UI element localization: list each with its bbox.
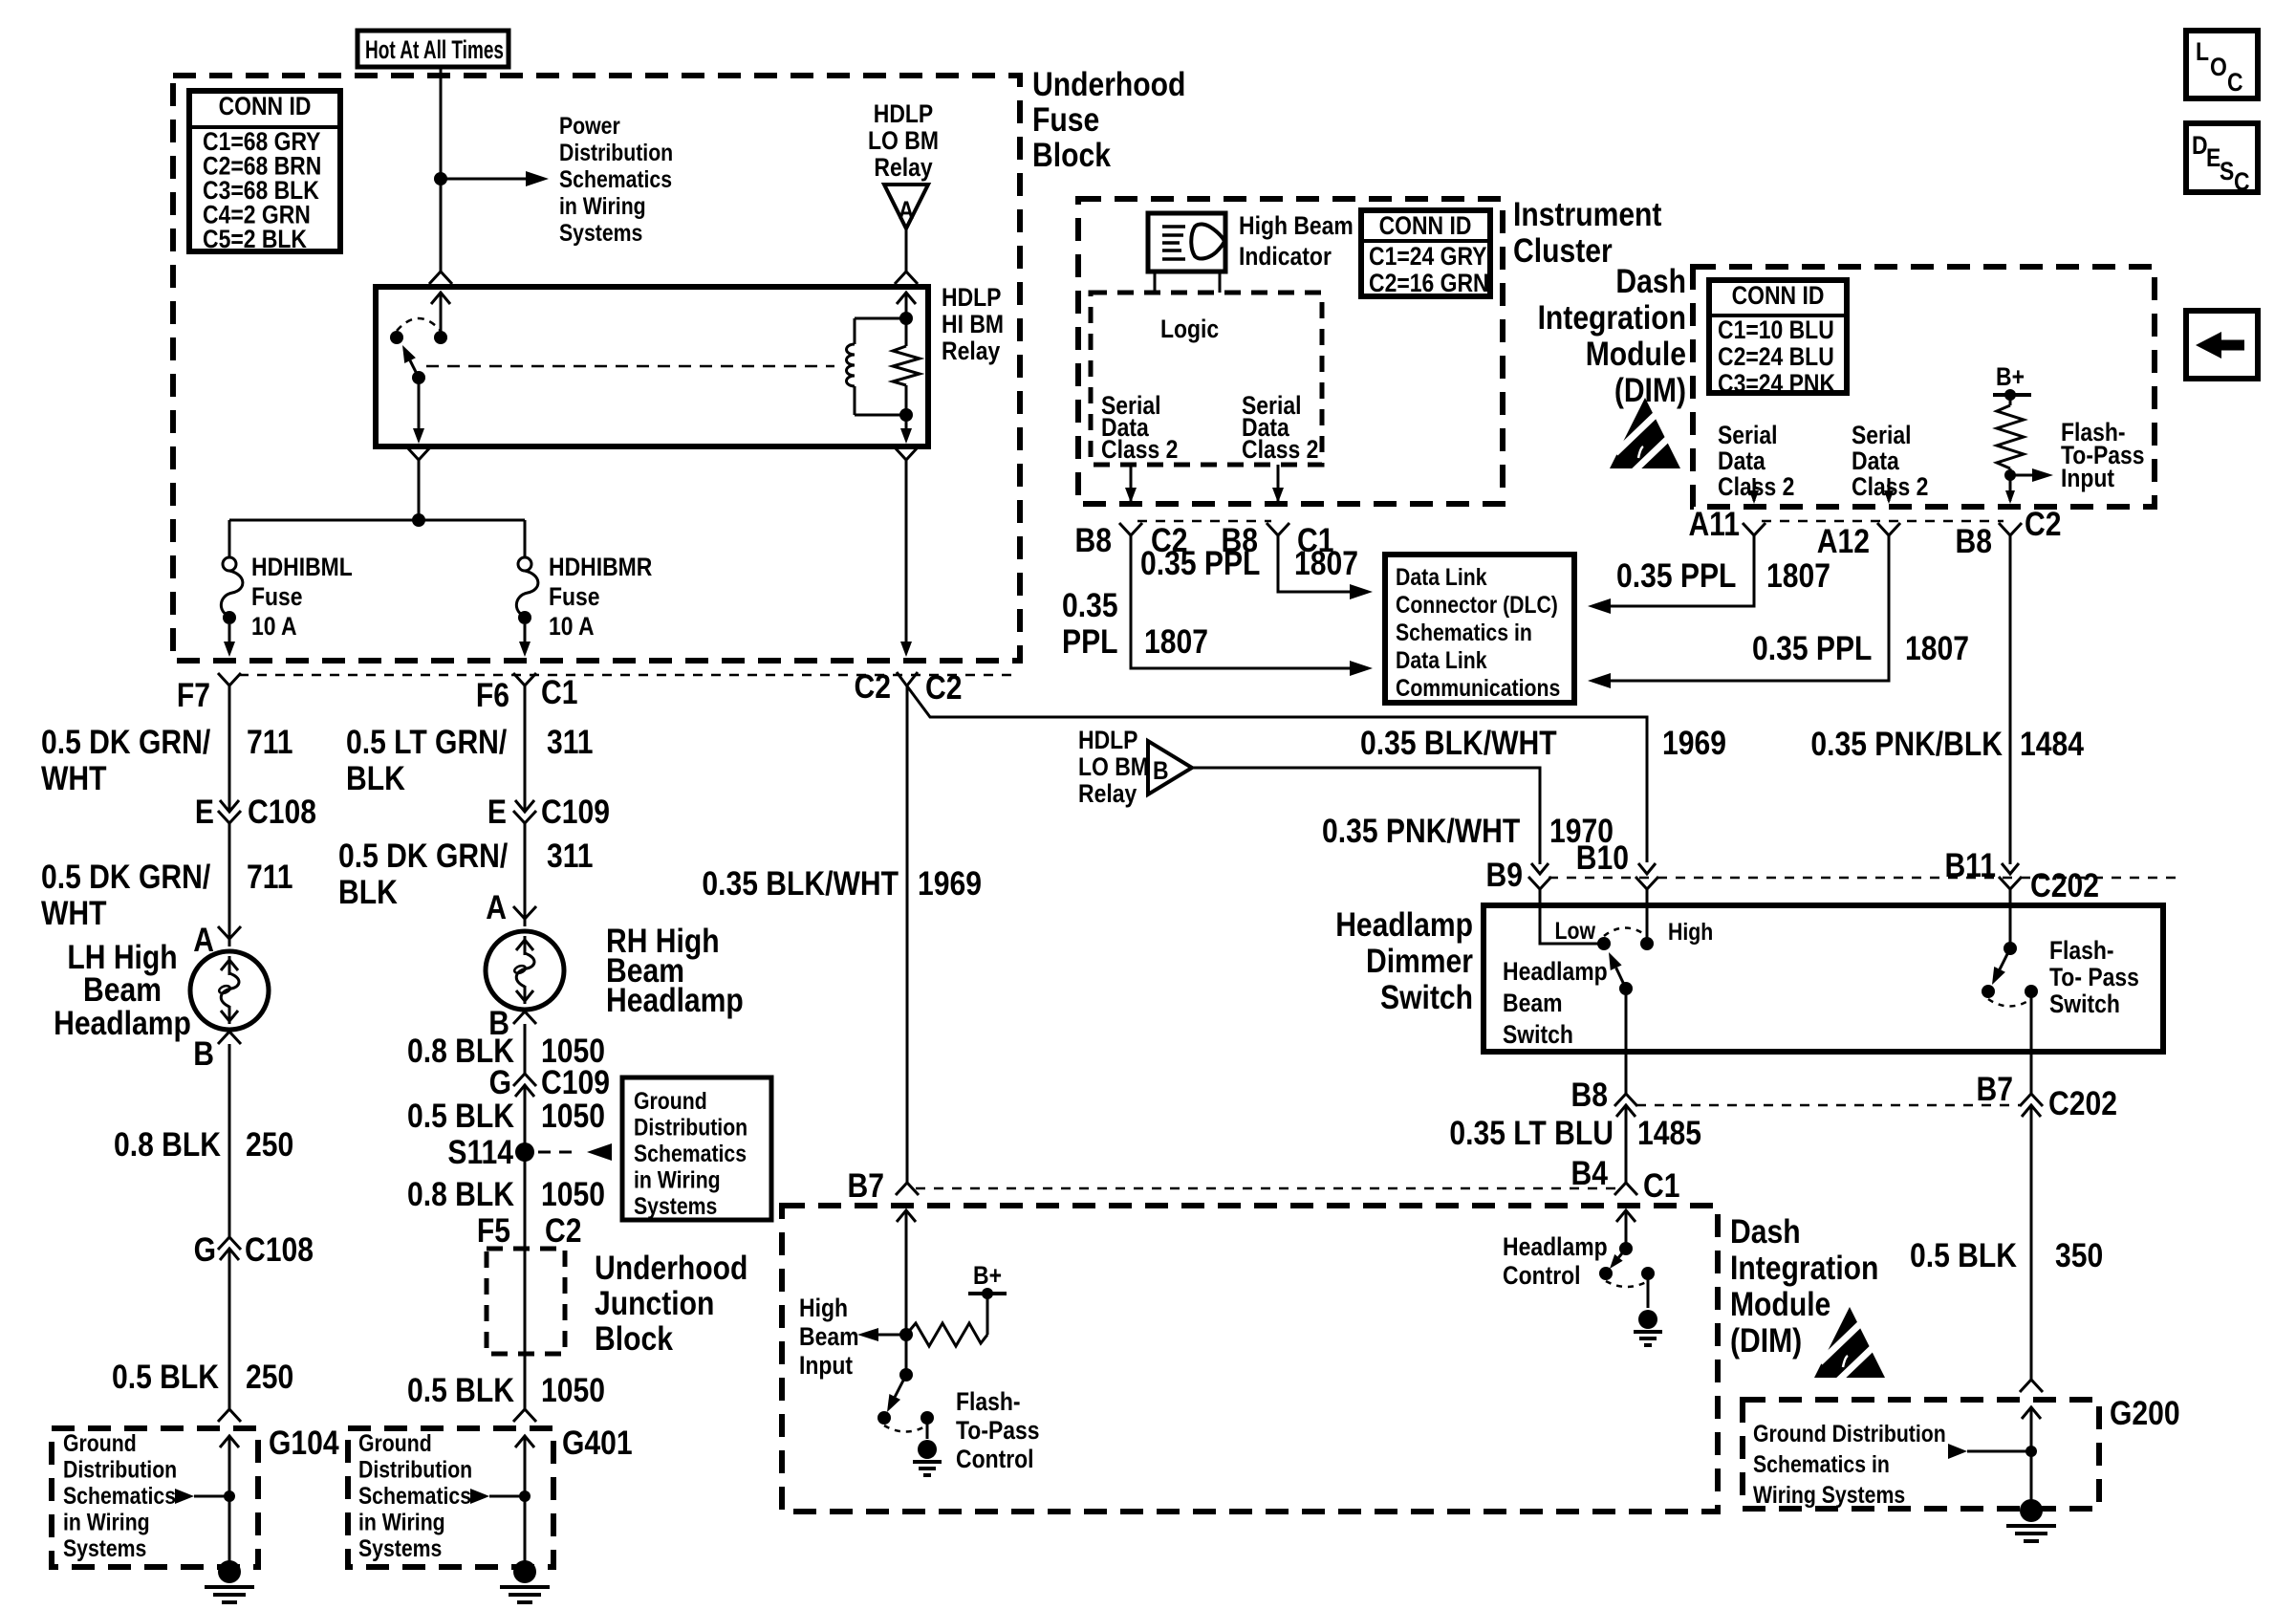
svg-text:B7: B7	[848, 1166, 884, 1205]
label: 0.8 BLK 1050 (third)	[407, 1175, 605, 1213]
svg-text:Schematics in: Schematics in	[1753, 1450, 1890, 1477]
svg-text:0.35 PNK/BLK: 0.35 PNK/BLK	[1810, 725, 2003, 763]
junction: high beam input node	[899, 1368, 913, 1382]
svg-text:0.8 BLK: 0.8 BLK	[114, 1125, 221, 1164]
svg-text:PPL: PPL	[1062, 622, 1118, 661]
svg-text:1807: 1807	[1905, 629, 1969, 667]
label: Underhood Fuse Block	[1032, 65, 1185, 174]
svg-text:E: E	[2206, 143, 2220, 172]
label: 0.5 DK GRN/BLK 311 (lower)	[338, 837, 594, 911]
wire: RH headlamp ground path	[524, 1024, 527, 1409]
wire: B+ down through DIM pin C2/B8	[2005, 475, 2015, 504]
svg-text:C1=24 GRY: C1=24 GRY	[1369, 242, 1487, 271]
wire: flash-to-pass switch output down (B7)	[2030, 991, 2033, 1094]
relay coil (inductor)	[847, 318, 907, 415]
switch: headlamp beam switch	[1555, 917, 1714, 995]
svg-text:A12: A12	[1817, 522, 1870, 560]
svg-text:Flash-: Flash-	[956, 1387, 1021, 1416]
svg-text:High: High	[1668, 918, 1713, 945]
wire: 0.35 PNK/BLK 1484 down to flash-to-pass switch	[2009, 535, 2012, 943]
relay HDLP LO BM Relay output pin B (triangle)	[1078, 726, 1192, 808]
svg-text:Communications: Communications	[1396, 674, 1560, 701]
svg-text:Control: Control	[1503, 1261, 1581, 1290]
connector chevron into G401 box	[513, 1409, 536, 1422]
label: HDLP HI BM Relay	[942, 283, 1004, 365]
wire: relay common pin with up arrow	[431, 293, 450, 337]
wire: into G200 with arrow and splice	[1948, 1407, 2041, 1503]
wire: relay coil return down out of box	[895, 415, 918, 657]
svg-text:Beam: Beam	[83, 970, 162, 1009]
svg-text:C: C	[2227, 68, 2243, 97]
svg-text:10 A: 10 A	[549, 612, 595, 641]
B+ feed (high beam input pull-up)	[968, 1261, 1007, 1299]
connector table CONN ID (underhood fuse block C1..C5)	[189, 91, 340, 253]
Headlamp Dimmer Switch (box)	[1484, 905, 2163, 1052]
connector line (DIM bottom)	[1762, 520, 2004, 523]
pin B (LH headlamp)	[193, 1032, 241, 1073]
svg-text:B8: B8	[1571, 1076, 1608, 1114]
wire: branch to Power Distribution with arrow	[441, 171, 549, 186]
svg-text:Dash: Dash	[1615, 262, 1686, 300]
resistor: high beam input pull-up	[899, 1294, 987, 1346]
connector pin B8 / C2 (DIM)	[1956, 505, 2062, 560]
svg-text:WHT: WHT	[41, 759, 107, 797]
wire: F7 to C108	[228, 685, 231, 812]
lamp LH High Beam Headlamp	[190, 951, 269, 1030]
wire: 0.35 PNK/WHT 1970 from relay B to dimmer B9	[1192, 768, 1540, 864]
wire: 0.35 LT BLU 1485	[1625, 1105, 1628, 1183]
svg-text:To-Pass: To-Pass	[956, 1416, 1040, 1445]
svg-text:0.5 BLK: 0.5 BLK	[407, 1097, 514, 1135]
wire: cluster serial data right (C1 pin B8)	[1272, 465, 1284, 503]
svg-text:C202: C202	[2048, 1084, 2117, 1122]
connector pin B7 (DIM C1)	[848, 1166, 919, 1205]
label: Serial Data Class 2 (DIM right)	[1852, 421, 1928, 501]
svg-text:E: E	[195, 793, 214, 831]
wire: B10 into switch (High)	[1646, 889, 1649, 938]
svg-text:Hot At All Times: Hot At All Times	[365, 35, 504, 64]
svg-text:Headlamp: Headlamp	[1503, 957, 1608, 986]
svg-text:F7: F7	[177, 676, 210, 714]
svg-text:0.35 LT BLU: 0.35 LT BLU	[1449, 1114, 1614, 1152]
svg-text:C109: C109	[541, 793, 610, 831]
label: 0.5 DK GRN/WHT 711 (lower)	[41, 858, 293, 932]
svg-text:CONN ID: CONN ID	[1732, 281, 1825, 310]
connector pin B8 / C1 (cluster)	[1222, 521, 1334, 559]
resistor (relay suppression)	[893, 312, 920, 422]
svg-text:Serial: Serial	[1852, 421, 1911, 449]
svg-text:Underhood: Underhood	[595, 1249, 747, 1287]
svg-text:Data: Data	[1718, 446, 1766, 475]
svg-text:HI BM: HI BM	[942, 310, 1004, 338]
label: Flash-To-Pass Control	[956, 1387, 1040, 1473]
svg-text:Relay: Relay	[874, 153, 932, 182]
svg-text:Ground: Ground	[358, 1429, 432, 1456]
svg-text:Dimmer: Dimmer	[1366, 942, 1473, 980]
label: G401	[562, 1424, 633, 1462]
svg-text:(DIM): (DIM)	[1730, 1321, 1802, 1360]
wire: C109 to RH headlamp	[524, 823, 527, 926]
ground distribution box (G200)	[1743, 1400, 2099, 1509]
switch: flash-to-pass control	[877, 1375, 934, 1439]
svg-text:L: L	[2196, 37, 2209, 66]
connector pin B10	[1576, 838, 1658, 889]
ESD sensitivity symbol (top DIM)	[1610, 398, 1680, 474]
label: High Beam Indicator	[1239, 211, 1354, 271]
label: 0.5 LT GRN/BLK 311 (upper)	[346, 723, 594, 797]
svg-text:Serial: Serial	[1718, 421, 1777, 449]
svg-text:711: 711	[247, 858, 293, 896]
connector pin F6 / C1	[476, 673, 578, 714]
svg-text:0.5 DK GRN/: 0.5 DK GRN/	[41, 858, 210, 896]
connector pin B7 / C202 (dimmer out)	[1977, 1070, 2117, 1122]
label: Instrument Cluster	[1513, 195, 1662, 270]
svg-text:Junction: Junction	[595, 1284, 714, 1322]
svg-text:C2: C2	[855, 667, 891, 706]
svg-text:C108: C108	[248, 793, 316, 831]
svg-text:Flash-: Flash-	[2049, 936, 2114, 965]
label: Flash-To-Pass Switch	[2049, 936, 2139, 1018]
ground G200 symbol	[2006, 1499, 2056, 1541]
label: Dash Integration Module (DIM) bottom	[1730, 1212, 1878, 1360]
switch: headlamp control	[1599, 1249, 1655, 1308]
wire: into G104 with arrow and splice	[175, 1436, 239, 1561]
svg-text:Ground: Ground	[63, 1429, 137, 1456]
svg-text:Distribution: Distribution	[559, 139, 673, 165]
svg-text:(DIM): (DIM)	[1614, 371, 1686, 409]
connector E C108	[195, 793, 316, 831]
svg-text:Low: Low	[1555, 917, 1596, 944]
svg-text:Beam: Beam	[799, 1322, 858, 1351]
switch: flash-to-pass switch	[1982, 942, 2038, 1007]
svg-text:1050: 1050	[541, 1175, 605, 1213]
power source label "Hot At All Times"	[357, 31, 509, 67]
label: Flash-To-Pass Input	[2061, 418, 2145, 492]
svg-text:Input: Input	[799, 1351, 854, 1380]
junction node on battery feed	[434, 172, 447, 185]
wire: C108 to LH headlamp	[228, 823, 231, 946]
Dash Integration Module enclosure (top)	[1693, 267, 2155, 507]
connector chevron into G104 box	[218, 1409, 241, 1422]
label: 0.35 PNK/WHT 1970	[1322, 812, 1614, 850]
svg-text:CONN ID: CONN ID	[1379, 211, 1472, 240]
svg-text:1807: 1807	[1766, 556, 1830, 595]
wire: battery feed from Hot At All Times to relay	[440, 67, 443, 272]
svg-text:G104: G104	[269, 1424, 339, 1462]
wire: A12 to DLC	[1588, 535, 1889, 688]
reference box: Ground Distribution Schematics (S114)	[622, 1077, 771, 1220]
svg-text:1485: 1485	[1637, 1114, 1701, 1152]
svg-text:To- Pass: To- Pass	[2049, 963, 2139, 991]
svg-text:D: D	[2192, 131, 2208, 160]
svg-text:HDLP: HDLP	[1078, 726, 1137, 754]
svg-text:F5: F5	[477, 1211, 510, 1250]
svg-text:C2=24 BLU: C2=24 BLU	[1718, 342, 1834, 371]
wire: relay coil pin from triangle A with chevron	[895, 272, 918, 319]
switch: relay contacts (movable arm)	[390, 318, 447, 384]
label: Underhood Junction Block	[595, 1249, 747, 1358]
svg-text:CONN ID: CONN ID	[219, 92, 312, 120]
navigation box (left arrow)	[2186, 311, 2258, 379]
svg-text:B+: B+	[1996, 362, 2025, 391]
ground distribution box (G401)	[348, 1428, 553, 1567]
wire: relay output to fuse split	[229, 513, 525, 527]
svg-text:C109: C109	[541, 1063, 610, 1101]
svg-text:B: B	[1153, 756, 1169, 785]
fuse HDHIBMR 10 A	[516, 557, 538, 624]
svg-text:in Wiring: in Wiring	[559, 192, 646, 219]
svg-text:C1: C1	[1643, 1166, 1679, 1205]
svg-text:Fuse: Fuse	[1032, 100, 1099, 139]
wire: cluster serial data left (C2 pin B8)	[1125, 465, 1137, 503]
svg-text:in Wiring: in Wiring	[63, 1509, 150, 1535]
svg-text:0.5 LT GRN/: 0.5 LT GRN/	[346, 723, 507, 761]
svg-text:Indicator: Indicator	[1239, 242, 1332, 271]
svg-text:LO BM: LO BM	[868, 126, 939, 155]
svg-text:Headlamp: Headlamp	[606, 981, 744, 1019]
svg-text:Data Link: Data Link	[1396, 646, 1487, 673]
connector E C109	[487, 793, 610, 831]
svg-text:S: S	[2220, 157, 2234, 185]
svg-text:Switch: Switch	[1503, 1020, 1573, 1049]
wire: headlamp control input (B4)	[1616, 1210, 1635, 1255]
svg-text:Control: Control	[956, 1445, 1034, 1473]
connector pin F5 / C2 (junction block)	[477, 1211, 582, 1250]
label: HDHIBML Fuse 10 A	[251, 553, 353, 641]
label: 0.5 BLK 1050 (fourth)	[407, 1371, 605, 1409]
ground: headlamp control	[1634, 1310, 1662, 1345]
connector line C1 (fuse block bottom)	[239, 674, 1015, 677]
label: Headlamp Beam Switch	[1503, 957, 1608, 1049]
label: 0.5 BLK 1050 (second)	[407, 1097, 605, 1135]
label: 0.35 LT BLU 1485	[1449, 1114, 1701, 1152]
svg-text:C2: C2	[2025, 505, 2061, 543]
svg-text:1050: 1050	[541, 1371, 605, 1409]
svg-text:0.35: 0.35	[1062, 586, 1118, 624]
wire: B9 into switch (Low)	[1540, 889, 1598, 944]
wire: 0.35 BLK/WHT 1969 down to DIM B7	[906, 685, 909, 1183]
wire: DIM serial data A11	[1749, 478, 1759, 504]
svg-text:Schematics: Schematics	[559, 165, 672, 192]
wire: 0.35 BLK/WHT 1969 branch to dimmer High	[897, 672, 1647, 862]
ground: flash-to-pass control	[913, 1440, 942, 1475]
label: Serial Data Class 2 (cluster right)	[1242, 391, 1318, 464]
svg-text:BLK: BLK	[346, 759, 405, 797]
wire: DIM serial data A12	[1884, 478, 1894, 504]
svg-text:C3=24 PNK: C3=24 PNK	[1718, 369, 1835, 398]
svg-text:Distribution: Distribution	[63, 1456, 177, 1483]
svg-text:Integration: Integration	[1730, 1249, 1878, 1287]
svg-text:Fuse: Fuse	[251, 582, 303, 611]
wire: B7 input into DIM	[897, 1210, 916, 1375]
label: 0.8 BLK 250	[114, 1125, 293, 1164]
wire: beam switch output down (B8)	[1625, 989, 1628, 1094]
reference box DESC	[2186, 123, 2258, 196]
svg-text:350: 350	[2055, 1236, 2103, 1274]
svg-text:Schematics: Schematics	[63, 1482, 176, 1509]
wire: flash-to-pass input arrow	[2004, 468, 2053, 482]
svg-text:Relay: Relay	[942, 337, 1000, 365]
label: Dash Integration Module (DIM) top	[1538, 262, 1686, 409]
svg-text:1484: 1484	[2020, 725, 2084, 763]
connector line C1 (DIM top)	[916, 1187, 1617, 1190]
svg-text:B11: B11	[1944, 846, 1996, 884]
svg-text:Module: Module	[1586, 335, 1686, 373]
label: 0.5 BLK 250	[112, 1358, 293, 1396]
splice S114	[447, 1133, 612, 1171]
label: Headlamp Dimmer Switch	[1335, 905, 1473, 1016]
connector line C202 (B8/B7)	[1636, 1104, 2021, 1107]
connector pin B11 / C202	[1944, 846, 2098, 904]
connector table CONN ID (instrument cluster)	[1361, 210, 1490, 297]
wire: A11 to DLC	[1588, 535, 1754, 614]
connector pin B8 / C2 (cluster)	[1075, 521, 1188, 559]
svg-text:Distribution: Distribution	[634, 1114, 747, 1141]
connector line C202 (B9/B10/B11)	[1549, 877, 2179, 880]
label: Power Distribution Schematics in Wiring Systems	[559, 112, 673, 246]
svg-text:0.35 PPL: 0.35 PPL	[1140, 544, 1260, 582]
svg-text:C: C	[2234, 167, 2250, 196]
svg-text:A: A	[486, 888, 507, 926]
ground G401 symbol	[500, 1560, 550, 1602]
svg-text:Dash: Dash	[1730, 1212, 1801, 1251]
svg-text:1969: 1969	[918, 864, 982, 903]
svg-text:F6: F6	[476, 676, 509, 714]
svg-text:0.5 BLK: 0.5 BLK	[407, 1371, 514, 1409]
label: G104	[269, 1424, 339, 1462]
wire: cluster C2 B8 to DLC	[1131, 535, 1373, 676]
svg-text:Data Link: Data Link	[1396, 563, 1487, 590]
svg-text:Wiring Systems: Wiring Systems	[1753, 1481, 1905, 1508]
connector line (cluster bottom)	[1137, 520, 1271, 523]
wire: cluster C1 B8 to DLC	[1278, 535, 1373, 599]
svg-text:High: High	[799, 1294, 848, 1322]
svg-text:Power: Power	[559, 112, 620, 139]
svg-text:Integration: Integration	[1538, 298, 1686, 337]
label: 0.35 PNK/BLK 1484	[1810, 725, 2084, 763]
connector G C108	[194, 1230, 314, 1269]
svg-text:B10: B10	[1576, 838, 1629, 877]
svg-text:0.35 PPL: 0.35 PPL	[1752, 629, 1872, 667]
svg-text:S114: S114	[447, 1133, 513, 1171]
indicator: High Beam Indicator icon	[1148, 213, 1225, 293]
svg-text:0.35 BLK/WHT: 0.35 BLK/WHT	[702, 864, 899, 903]
svg-text:Data: Data	[1852, 446, 1900, 475]
svg-text:A: A	[193, 921, 214, 959]
svg-text:Schematics: Schematics	[358, 1482, 471, 1509]
label: High Beam Input	[799, 1294, 858, 1380]
svg-text:G401: G401	[562, 1424, 633, 1462]
pin A (LH headlamp)	[193, 921, 241, 959]
label: 0.35 PPL (cluster left wire)	[1062, 586, 1208, 661]
label: RH High Beam Headlamp	[606, 922, 744, 1019]
svg-text:Headlamp: Headlamp	[1503, 1232, 1608, 1261]
wire: relay output (switched) down and out of box	[413, 378, 424, 520]
connector G C109	[489, 1063, 610, 1101]
label: LH High Beam Headlamp	[54, 938, 191, 1042]
label: 0.35 BLK/WHT 1969 (vertical run)	[702, 864, 982, 903]
wire: right fuse leg	[524, 520, 527, 558]
connector pin A12	[1817, 522, 1900, 560]
label: 0.35 BLK/WHT 1969 (horizontal run)	[1360, 724, 1726, 762]
svg-text:Beam: Beam	[1503, 989, 1562, 1017]
svg-text:B9: B9	[1486, 856, 1523, 894]
wire: left fuse output with arrow	[224, 624, 235, 657]
svg-text:HDLP: HDLP	[874, 99, 933, 128]
svg-text:0.5 BLK: 0.5 BLK	[1910, 1236, 2017, 1274]
svg-text:711: 711	[247, 723, 293, 761]
Underhood Fuse Block enclosure	[173, 76, 1020, 661]
reference box LOC	[2186, 31, 2258, 98]
connector table CONN ID (DIM)	[1709, 280, 1847, 398]
svg-text:C5=2 BLK: C5=2 BLK	[203, 225, 307, 253]
svg-text:Input: Input	[2061, 464, 2115, 492]
resistor: flash-to-pass input pull-up	[1997, 395, 2024, 475]
block: Data Link Connector (DLC)	[1385, 555, 1574, 703]
logic block (dashed)	[1091, 293, 1322, 465]
connector pin B4 / C1 (DIM)	[1571, 1154, 1680, 1205]
svg-text:1050: 1050	[541, 1097, 605, 1135]
svg-text:Systems: Systems	[559, 219, 642, 246]
dashed link: relay arm to coil	[426, 365, 834, 368]
svg-text:Switch: Switch	[2049, 990, 2120, 1018]
label: 0.5 DK GRN/WHT 711 (upper)	[41, 723, 293, 797]
connector chevron into G200 box	[2020, 1380, 2043, 1392]
wire: left fuse leg	[228, 520, 231, 558]
connector C2 x C2 (fuse block output)	[855, 667, 963, 707]
svg-text:Block: Block	[595, 1319, 674, 1358]
svg-text:E: E	[487, 793, 507, 831]
svg-text:Connector (DLC): Connector (DLC)	[1396, 591, 1558, 618]
svg-text:LO BM: LO BM	[1078, 752, 1149, 781]
svg-text:in Wiring: in Wiring	[634, 1166, 721, 1193]
relay HDLP HI BM Relay (box)	[376, 287, 928, 446]
wire: into G401 with arrow and splice	[470, 1436, 534, 1561]
svg-text:B: B	[193, 1034, 214, 1073]
svg-text:B4: B4	[1571, 1154, 1608, 1192]
label: 0.35 PPL 1807 (cluster right wire)	[1140, 544, 1358, 582]
svg-text:G: G	[489, 1063, 511, 1101]
svg-text:0.35 PNK/WHT: 0.35 PNK/WHT	[1322, 812, 1520, 850]
svg-text:10 A: 10 A	[251, 612, 297, 641]
svg-text:Fuse: Fuse	[549, 582, 600, 611]
connector pin B9	[1486, 856, 1551, 894]
svg-text:G: G	[194, 1230, 216, 1269]
svg-text:1807: 1807	[1294, 544, 1358, 582]
svg-text:HDHIBMR: HDHIBMR	[549, 553, 652, 581]
pin B (RH headlamp)	[488, 1004, 536, 1042]
svg-text:BLK: BLK	[338, 873, 398, 911]
label: Serial Data Class 2 (cluster left)	[1101, 391, 1178, 464]
svg-text:Systems: Systems	[634, 1192, 717, 1219]
svg-text:A11: A11	[1688, 505, 1740, 543]
Underhood Junction Block enclosure	[487, 1249, 565, 1354]
svg-text:C2: C2	[925, 668, 962, 707]
wire: LH headlamp ground path	[228, 1044, 231, 1409]
connector chevron: feed into relay box (left pin)	[429, 272, 452, 284]
svg-text:Block: Block	[1032, 136, 1112, 174]
ground G104 symbol	[205, 1560, 254, 1602]
svg-text:Underhood: Underhood	[1032, 65, 1185, 103]
wire: F6/C1 to C109	[524, 685, 527, 812]
svg-text:B8: B8	[1075, 521, 1112, 559]
svg-text:Headlamp: Headlamp	[54, 1004, 191, 1042]
svg-text:C1=10 BLU: C1=10 BLU	[1718, 315, 1834, 344]
relay HDLP LO BM Relay feed pin A (triangle)	[868, 99, 939, 272]
label: 0.8 BLK 1050 (first)	[407, 1032, 605, 1070]
B+ feed (flash-to-pass pull-up)	[1993, 362, 2031, 401]
label: Headlamp Control	[1503, 1232, 1608, 1290]
